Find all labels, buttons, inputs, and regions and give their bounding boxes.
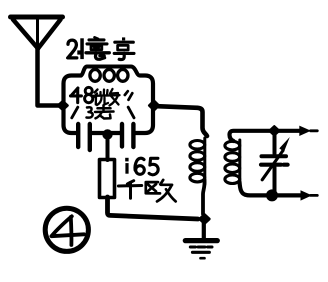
wire between capacitors: [92, 131, 120, 135]
node right tank junction: [149, 101, 159, 110]
inductor L1 bump: [81, 67, 140, 76]
char 千: [118, 181, 141, 199]
wire tap to resistor: [106, 135, 110, 161]
digit 6: [135, 158, 144, 170]
variable capacitor C3: [261, 135, 290, 193]
wire tank to transformer primary: [157, 106, 207, 136]
node bottom right junction: [266, 189, 278, 201]
char 亨: [114, 37, 134, 59]
figure number circled 4: [45, 208, 88, 251]
ditto mark: [125, 91, 133, 100]
wire secondary top: [230, 131, 301, 141]
char 欧: [146, 180, 176, 202]
resistor R1 box: [100, 160, 115, 198]
slash: [72, 107, 78, 118]
backslash: [128, 107, 134, 118]
wire antenna stem to tank: [38, 47, 62, 106]
node left tank junction: [58, 101, 67, 110]
node ground junction: [200, 214, 210, 223]
label C value 48微法: [71, 87, 135, 118]
char 法: [87, 105, 114, 118]
wire secondary bottom: [240, 182, 301, 195]
label R value 165千欧: [118, 158, 175, 202]
node capacitor center tap: [102, 129, 112, 139]
label L value 2-1毫亨: [68, 37, 134, 59]
wire resistor bottom to ground junction: [108, 197, 199, 219]
tank loop right side: [135, 76, 153, 134]
digit 4: [71, 88, 82, 103]
antenna: [11, 17, 63, 49]
digit 8: [85, 87, 92, 94]
char 微: [94, 89, 120, 106]
arrow bottom right: [301, 190, 313, 200]
node top right junction: [270, 126, 279, 135]
digit 5: [149, 158, 158, 174]
arrow top right: [299, 126, 311, 136]
wire primary bottom to ground junction: [203, 180, 205, 214]
char 毫: [86, 37, 109, 59]
ground: [185, 222, 217, 258]
capacitor C1 plates: [76, 124, 80, 147]
inductor L1 loops: [90, 70, 100, 82]
arrow through: [262, 151, 283, 180]
transformer primary coil: [190, 138, 205, 184]
tank loop left side: [64, 76, 82, 134]
capacitor C2 plates: [120, 124, 124, 147]
transformer secondary coil: [225, 140, 240, 185]
